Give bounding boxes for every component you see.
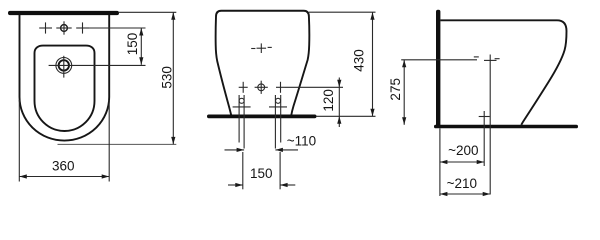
arrow right at fixing line	[477, 160, 485, 164]
arrow left	[19, 174, 27, 178]
svg-text:360: 360	[52, 158, 75, 173]
arrow down at drain row	[139, 57, 143, 65]
right water pipe lines	[274, 95, 276, 149]
wall line (top thick bar)	[8, 11, 119, 15]
dimension 530 line	[172, 12, 174, 144]
bidet inner basin outline (plan)	[35, 46, 95, 131]
arrow right toward left pipe	[237, 148, 245, 152]
arrow up toward floor	[337, 116, 341, 124]
floor line (thick bar)	[207, 115, 317, 119]
svg-text:~210: ~210	[447, 176, 477, 191]
drain vertical centerline	[63, 56, 65, 78]
tap mark right tick	[268, 46, 272, 48]
svg-text:120: 120	[321, 89, 336, 112]
275 extension line	[401, 59, 477, 61]
drain centreline (side, long vertical)	[489, 55, 491, 195]
wall extension line to 530 dimension	[119, 11, 176, 13]
bidet profile (side)	[440, 20, 566, 125]
arrow right at drain line	[483, 192, 491, 196]
svg-text:530: 530	[160, 66, 175, 89]
dimension ~110 line left part	[225, 149, 245, 151]
360 right extension line	[108, 100, 110, 182]
dimension 120 line (outside arrows)	[338, 78, 340, 128]
right pipe tick	[269, 106, 287, 108]
150 left extension line (front)	[242, 152, 244, 189]
bidet body outline (front)	[216, 11, 310, 116]
small tick right of drain cross	[495, 58, 500, 60]
arrow left at wall	[440, 160, 448, 164]
svg-text:275: 275	[388, 78, 403, 101]
arrow up at wall	[171, 12, 175, 19]
left cross mark beside tap hole	[39, 27, 52, 29]
arrow up at tap row	[139, 28, 143, 36]
dimension 150 line with outside arrows	[228, 184, 243, 186]
arrow down at bidet front	[171, 137, 175, 145]
dimension 275 line	[403, 60, 405, 125]
svg-text:150: 150	[125, 33, 140, 56]
svg-text:~110: ~110	[287, 133, 316, 148]
dimension ~200 line	[440, 161, 484, 163]
drain cross arm (side)	[484, 59, 497, 61]
drain horizontal centerline extended to 150 dimension	[49, 64, 146, 66]
right cross mark beside tap hole	[76, 27, 89, 29]
arrow up at rim	[370, 12, 374, 20]
tap mark left tick	[251, 48, 255, 50]
bidet outer rim outline (plan)	[20, 15, 110, 141]
arrow toward right ext	[280, 183, 288, 187]
tap hole crosshair	[56, 27, 71, 29]
extension line from fixing hole to 120 dim	[285, 86, 343, 88]
dimension ~110 line right part	[275, 149, 298, 151]
wall line (thick vertical bar)	[436, 10, 440, 128]
arrow left toward right pipe	[275, 148, 283, 152]
tap hole circle	[61, 25, 68, 32]
wall extension line below floor	[439, 128, 441, 196]
arrow down toward fixing row	[337, 80, 341, 88]
drain inner circle (bold)	[59, 60, 69, 70]
dimension 430 line	[372, 12, 374, 116]
extension line from tap row to 150 dimension	[89, 27, 146, 29]
150 right extension line (front)	[279, 152, 281, 189]
extension line from bidet front to 530 dimension	[58, 143, 177, 145]
right pipe circle	[276, 98, 281, 103]
arrow right	[102, 174, 110, 178]
drain centre mark (circle+cross)	[258, 84, 265, 91]
svg-text:430: 430	[352, 49, 367, 72]
floor line (thick bar)	[434, 125, 578, 129]
floor fixing cross (side)	[479, 116, 490, 118]
arrow left at wall	[440, 192, 448, 196]
arrow up	[402, 60, 406, 68]
arrow down at floor	[370, 109, 374, 117]
dimension ~210 line	[440, 193, 490, 195]
dimension 150 (plan, tap to drain) line	[140, 28, 142, 65]
tap mark cross on shelf (front)	[257, 47, 267, 49]
svg-text:~200: ~200	[448, 143, 478, 158]
left pipe circle	[239, 98, 244, 103]
floor extension line to 430/120 dims	[316, 115, 376, 117]
svg-text:150: 150	[250, 166, 273, 181]
left pipe tick	[233, 106, 251, 108]
rim extension line to 430 dim	[309, 11, 376, 13]
360 left extension line	[18, 100, 20, 182]
small tick left of drain cross	[474, 56, 479, 58]
arrow down	[402, 117, 406, 125]
drain outer circle	[56, 58, 72, 74]
left water pipe lines	[238, 95, 240, 143]
arrow toward left ext	[235, 183, 243, 187]
dimension 360 line	[19, 176, 109, 178]
left fixing hole cross	[239, 86, 248, 88]
right fixing hole cross	[276, 86, 285, 88]
